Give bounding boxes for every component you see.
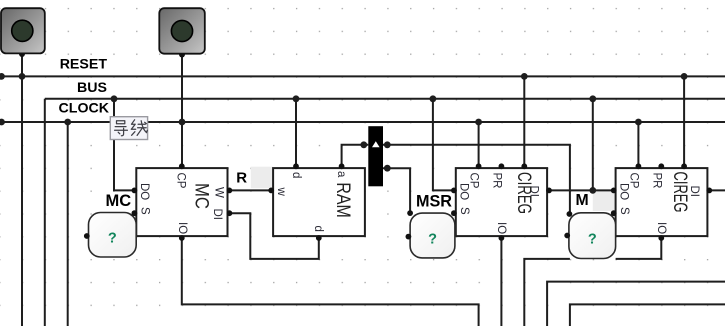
highlight cell next to R label [251, 167, 273, 189]
node button2 pin [179, 52, 185, 58]
node MSR probe pin [406, 234, 412, 240]
node RESET left edge [0, 73, 5, 80]
node CIREG2 DI pin [706, 188, 712, 194]
wire RESET bus line [0, 75, 725, 77]
wire BUS bus line [45, 98, 725, 100]
node RAM a pin [339, 163, 345, 169]
node RESET CIREG2 [681, 73, 688, 80]
tooltip 导线 [110, 117, 147, 140]
svg-text:MSR: MSR [416, 192, 452, 210]
wire BUS to DI-DO junction [592, 99, 594, 191]
wire CLOCK bus line [0, 121, 725, 123]
node MSR probe top corner [407, 210, 413, 216]
subcircuit RAM [273, 168, 365, 236]
button 2 [159, 8, 205, 54]
node RAM w pin [268, 188, 274, 194]
node CIREG1 CP pin [476, 163, 482, 169]
buffer (black component) [368, 126, 383, 186]
wire CIREG1 IO down [500, 236, 502, 326]
wire BUS to MC DO [114, 99, 136, 191]
node CLOCK CIREG1-CP [475, 119, 482, 126]
node CIREG1 S pin [451, 210, 457, 216]
svg-text:CP: CP [175, 173, 187, 189]
svg-text:DO: DO [618, 183, 630, 200]
svg-text:?: ? [588, 232, 597, 248]
wire C nested to right edge [547, 282, 725, 326]
svg-text:d: d [290, 172, 302, 178]
svg-text:S: S [618, 207, 630, 215]
wire CLOCK to CIREG1 CP [478, 122, 480, 168]
svg-text:DO: DO [458, 183, 470, 200]
wire CIREG2 IO to M probe [616, 236, 662, 259]
wire RESET to CIREG2 pin3 [683, 76, 685, 168]
wire BUS to CIREG1 DO [433, 99, 456, 191]
node DI-DO junction [589, 187, 596, 194]
node MC S pin [132, 210, 138, 216]
node CIREG1 pin3 [521, 163, 527, 169]
wire button2 to MC CP [181, 50, 183, 168]
pin dots [19, 51, 712, 241]
node MC CP pin [179, 163, 185, 169]
svg-text:d: d [312, 226, 324, 232]
probe ? of M [569, 213, 616, 259]
node BUS CIREG2-DO [589, 95, 596, 102]
highlight cell next to M label [593, 191, 616, 212]
node RAM d bottom pin [316, 235, 322, 241]
wire button1 vertical [21, 50, 23, 326]
node button1 pin [19, 51, 25, 57]
svg-text:MC: MC [106, 192, 132, 210]
wire CLOCK junction down [67, 122, 69, 326]
node RESET CIREG1 [521, 73, 528, 80]
svg-text:PR: PR [491, 173, 503, 189]
node CIREG2 PR pin [658, 163, 664, 169]
node CIREG2 DO pin [611, 188, 617, 194]
svg-text:PR: PR [651, 173, 663, 189]
node CIREG1 IO pin [499, 235, 505, 241]
svg-text:CIREG: CIREG [669, 172, 690, 213]
probe ? of MC [89, 213, 137, 258]
wire buffer lower right to MSR probe [383, 168, 410, 213]
svg-text:CLOCK: CLOCK [59, 100, 110, 116]
node CIREG2 pin3 [681, 163, 687, 169]
node CIREG2 IO pin [658, 235, 664, 241]
node CLOCK button2 [179, 119, 186, 126]
wire buffer right to M probe [383, 145, 570, 214]
wire D nested to right edge [570, 304, 725, 326]
node MC probe pin [84, 233, 90, 239]
node M probe pin [564, 233, 570, 239]
node CLOCK v2 [64, 119, 71, 126]
node RESET button1 [19, 73, 26, 80]
node BUS MC-DO [111, 95, 118, 102]
wire MC IO down across [182, 236, 479, 326]
node CIREG2 CP pin [636, 163, 642, 169]
wire CLOCK to CIREG2 CP [637, 122, 639, 168]
svg-text:IO: IO [176, 222, 188, 234]
node MC IO pin [179, 235, 185, 241]
node CIREG2 S pin [611, 210, 617, 216]
wire RESET to CIREG1 pin3 [523, 76, 525, 168]
svg-text:MC: MC [191, 183, 212, 209]
wire M probe bottom left L [524, 259, 570, 326]
wire BUS corner down [44, 99, 46, 326]
node CIREG1 DO pin [451, 188, 457, 194]
wire CIREG2 DI to right edge [707, 189, 725, 191]
svg-text:W: W [213, 187, 225, 198]
node BUS RAM-d [293, 95, 300, 102]
svg-text:a: a [335, 171, 347, 178]
node CLOCK CIREG2-CP [635, 119, 642, 126]
svg-text:S: S [139, 207, 151, 215]
subcircuit CIREG 1 (MSR) [456, 168, 547, 236]
wire RAM a to buffer left [342, 145, 369, 168]
svg-text:IO: IO [495, 222, 507, 234]
wire MC DI to RAM d bottom [228, 213, 319, 259]
node buffer left pin [360, 141, 367, 148]
svg-text:?: ? [108, 231, 117, 247]
svg-text:w: w [275, 187, 287, 197]
svg-text:IO: IO [655, 222, 667, 234]
node CIREG1 PR pin [499, 163, 505, 169]
node CLOCK left edge [0, 119, 5, 126]
svg-text:DI: DI [211, 209, 223, 221]
node CIREG1 DI pin [546, 188, 552, 194]
wire CIREG1 DI to CIREG2 DO [547, 189, 616, 191]
svg-text:?: ? [428, 231, 437, 247]
subcircuit MC [136, 168, 227, 236]
node RAM d pin [293, 163, 299, 169]
svg-text:RESET: RESET [60, 56, 108, 72]
probe ? of MSR [410, 213, 455, 258]
svg-text:DO: DO [138, 183, 150, 200]
wire BUS to RAM d [295, 99, 297, 168]
button 1 [1, 8, 45, 53]
node buffer lower right pin [384, 165, 391, 172]
node MC DO pin [132, 188, 138, 194]
svg-text:RAM: RAM [332, 182, 353, 217]
node M probe top corner [567, 211, 573, 217]
node MC DI pin [227, 210, 233, 216]
subcircuit CIREG 2 (M) [616, 168, 708, 236]
svg-text:S: S [458, 207, 470, 215]
wire MC W to RAM w [228, 189, 274, 191]
svg-text:BUS: BUS [77, 80, 107, 96]
node MC W pin [227, 188, 233, 194]
node buffer right pin [384, 141, 391, 148]
svg-text:M: M [576, 192, 589, 209]
svg-text:R: R [236, 170, 247, 187]
node BUS CIREG1-DO [430, 95, 437, 102]
svg-text:CIREG: CIREG [513, 172, 534, 214]
